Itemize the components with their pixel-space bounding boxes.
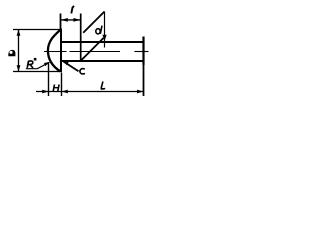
dimension D: bottom arrow — [17, 65, 21, 71]
radius R arrowhead — [44, 62, 50, 66]
dimension H right / L left shared arrow — [62, 90, 68, 94]
dimension l: right arrow — [73, 18, 80, 22]
radius R leader shelf under label — [26, 64, 47, 69]
dimension l: dimension line — [61, 19, 81, 21]
rivet head dome arc — [48, 30, 61, 72]
label H stems — [53, 85, 54, 92]
dimension L: right arrow — [137, 90, 143, 94]
dimension d: upper diagonal shelf — [83, 12, 104, 33]
label d bowl — [96, 29, 100, 34]
dimension l: right extension line — [80, 14, 82, 62]
dimension D: top extension line — [13, 29, 60, 31]
dimension H and L: common dimension line — [36, 91, 144, 93]
dimension D: bottom extension line — [13, 71, 62, 73]
label R superscript mark — [34, 58, 37, 61]
chamfer c leader line — [64, 62, 79, 72]
label L stem — [101, 82, 103, 89]
rivet head flat face — [60, 29, 62, 72]
dimension H: left outside arrow — [42, 90, 48, 94]
dimension d: lower diagonal leader — [81, 38, 104, 61]
dimension d: vertical dimension line — [104, 12, 106, 48]
label R leg — [30, 65, 33, 69]
label H crossbar — [54, 87, 59, 89]
label l — [71, 6, 74, 13]
label R bowl — [28, 61, 33, 65]
dimension d: down arrow at shank top edge — [102, 35, 106, 42]
label d ascender — [100, 26, 102, 34]
dimension D: top arrow — [17, 30, 21, 36]
dimension l: left extension line — [60, 14, 62, 30]
label R stem — [27, 61, 28, 68]
label D (rotated 90) — [8, 50, 15, 56]
dimension l: left arrow — [61, 18, 68, 22]
dimension H: left extension line — [48, 62, 50, 96]
rivet axis center line (dash-dot) — [44, 51, 67, 53]
shank end cap — [142, 37, 144, 66]
shank bottom edge — [61, 60, 144, 62]
label c — [80, 69, 85, 74]
chamfer c arrowhead — [62, 61, 68, 65]
dimension D: dimension line — [18, 30, 20, 72]
shank top edge — [61, 41, 144, 43]
dimension H/L: shared extension line — [61, 73, 63, 97]
label L foot — [101, 88, 106, 90]
dimension L: right extension line — [143, 65, 145, 96]
